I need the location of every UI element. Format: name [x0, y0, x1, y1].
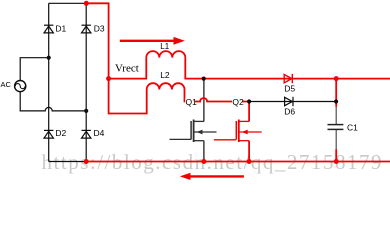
svg-text:C1: C1 [347, 123, 358, 133]
svg-text:Q1: Q1 [186, 97, 198, 107]
svg-text:D5: D5 [284, 83, 295, 93]
svg-text:AC: AC [1, 80, 12, 89]
svg-text:Vrect: Vrect [115, 63, 139, 75]
svg-text:L2: L2 [160, 70, 170, 80]
svg-text:D6: D6 [284, 107, 295, 117]
svg-text:D1: D1 [55, 23, 66, 33]
svg-text:D4: D4 [94, 128, 105, 138]
svg-text:D3: D3 [94, 23, 105, 33]
svg-text:Q2: Q2 [232, 97, 244, 107]
svg-text:L1: L1 [160, 42, 169, 51]
svg-text:D2: D2 [55, 128, 66, 138]
